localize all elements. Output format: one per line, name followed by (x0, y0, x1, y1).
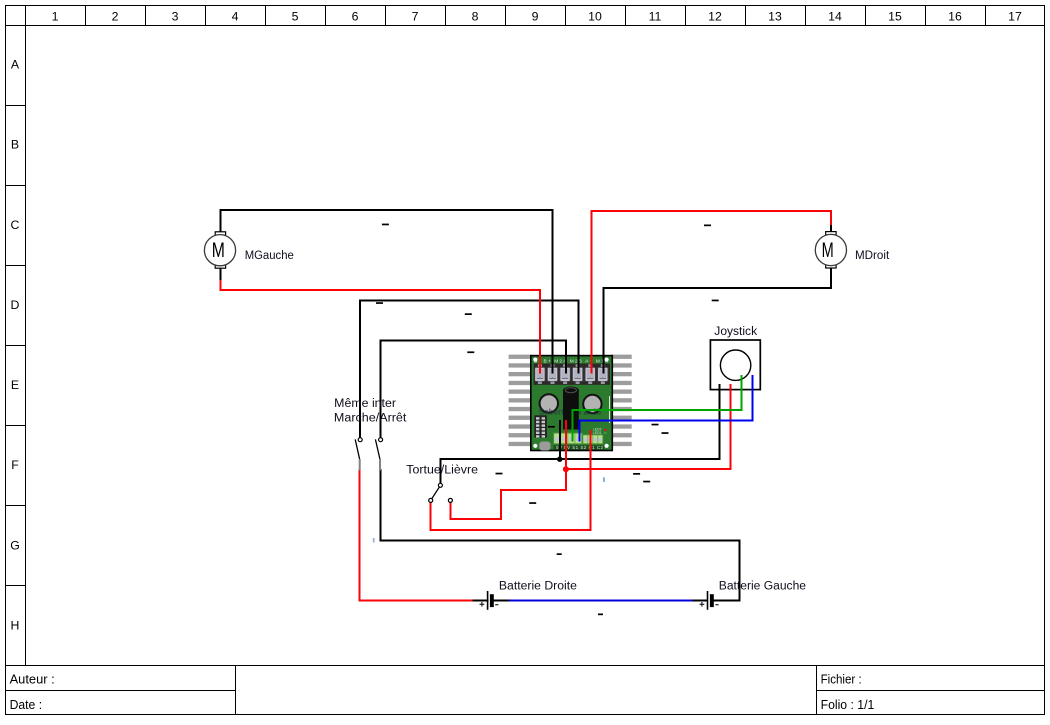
svg-text:M: M (212, 239, 225, 262)
svg-text:14: 14 (828, 9, 842, 23)
svg-text:Marche/Arrêt: Marche/Arrêt (334, 412, 407, 424)
svg-text:Batterie Gauche: Batterie Gauche (719, 581, 806, 593)
svg-text:2: 2 (112, 9, 119, 23)
svg-text:Même inter: Même inter (334, 398, 396, 410)
svg-text:16: 16 (948, 9, 962, 23)
svg-text:8: 8 (472, 9, 479, 23)
svg-text:Joystick: Joystick (714, 326, 757, 338)
svg-text:Tortue/Lièvre: Tortue/Lièvre (406, 465, 478, 477)
svg-text:12: 12 (708, 9, 722, 23)
svg-text:A: A (11, 58, 20, 72)
svg-text:F: F (11, 458, 19, 472)
svg-text:7: 7 (412, 9, 419, 23)
svg-text:15: 15 (888, 9, 902, 23)
svg-text:Folio : 1/1: Folio : 1/1 (821, 697, 875, 712)
svg-text:Fichier :: Fichier : (821, 671, 862, 686)
svg-text:Auteur :: Auteur : (10, 671, 55, 686)
svg-text:13: 13 (768, 9, 782, 23)
svg-text:H: H (11, 619, 20, 633)
svg-text:3: 3 (172, 9, 179, 23)
svg-text:B- B+ M2A M2B A+ M1A: B- B+ M2A M2B A+ M1A (534, 358, 609, 364)
svg-text:1: 1 (52, 9, 59, 23)
svg-text:11: 11 (649, 9, 662, 23)
svg-text:MDroit: MDroit (855, 250, 890, 262)
svg-text:Date :: Date : (10, 697, 43, 712)
svg-text:D: D (11, 298, 20, 312)
svg-text:MGauche: MGauche (245, 250, 294, 262)
svg-text:M: M (822, 239, 834, 262)
svg-text:0V 5V S1 S2 C1 C2: 0V 5V S1 S2 C1 C2 (556, 445, 604, 450)
svg-text:C: C (11, 218, 20, 232)
svg-text:Batterie Droite: Batterie Droite (499, 580, 577, 592)
svg-text:9: 9 (532, 9, 539, 23)
svg-text:B: B (11, 138, 19, 152)
svg-text:5: 5 (292, 9, 299, 23)
svg-text:G: G (10, 538, 20, 552)
svg-text:10: 10 (588, 9, 602, 23)
svg-text:6: 6 (352, 9, 359, 23)
svg-text:LED1: LED1 (593, 431, 601, 435)
svg-text:E: E (11, 378, 19, 392)
svg-text:17: 17 (1008, 9, 1022, 23)
svg-text:4: 4 (232, 9, 239, 23)
